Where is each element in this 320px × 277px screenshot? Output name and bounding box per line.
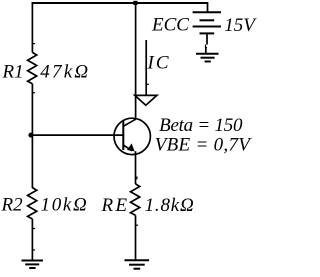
- svg-text:VBE = 0,7V: VBE = 0,7V: [155, 134, 253, 155]
- wire R1 top tick: [33, 43, 35, 45]
- svg-text:IC: IC: [147, 52, 171, 73]
- wire base horizontal to transistor: [32, 134, 123, 136]
- wire RE bottom to ground: [135, 215, 137, 260]
- svg-text:1.8kΩ: 1.8kΩ: [145, 195, 195, 216]
- wire left vertical from rail to R1: [31, 3, 33, 52]
- svg-text:RE: RE: [101, 195, 130, 216]
- ground below RE: [125, 260, 150, 269]
- node collector rail junction dot: [133, 1, 137, 5]
- wire R2 bottom to ground: [31, 219, 33, 261]
- svg-text:ECC: ECC: [151, 15, 189, 36]
- wire RE bottom tick: [136, 224, 138, 226]
- wire collector vertical from rail to Q1: [135, 3, 137, 119]
- wire R1 bottom tick: [33, 92, 35, 94]
- svg-text:10kΩ: 10kΩ: [41, 195, 89, 216]
- wire R2 bottom ticks: [33, 228, 35, 230]
- svg-text:Beta = 150: Beta = 150: [159, 115, 243, 136]
- wire base node down to R2: [31, 136, 33, 188]
- wire emitter to RE: [135, 151, 137, 184]
- ground below battery: [196, 54, 219, 62]
- svg-text:R1: R1: [2, 61, 24, 82]
- resistor RE: [131, 184, 140, 215]
- svg-text:R2: R2: [1, 195, 24, 216]
- resistor R2: [28, 188, 37, 219]
- wire emitter jog tick: [136, 177, 137, 179]
- battery ECC: [193, 3, 221, 54]
- node base junction dot: [28, 133, 33, 138]
- svg-text:47kΩ: 47kΩ: [40, 62, 90, 83]
- current arrow IC: [135, 40, 157, 105]
- transistor Q1 NPN: [114, 118, 150, 154]
- svg-text:15V: 15V: [224, 15, 257, 36]
- wire R1 bottom to base node: [31, 84, 33, 136]
- ground below R2: [22, 261, 44, 269]
- wire top rail (VCC net): [32, 2, 209, 4]
- resistor R1: [28, 52, 37, 83]
